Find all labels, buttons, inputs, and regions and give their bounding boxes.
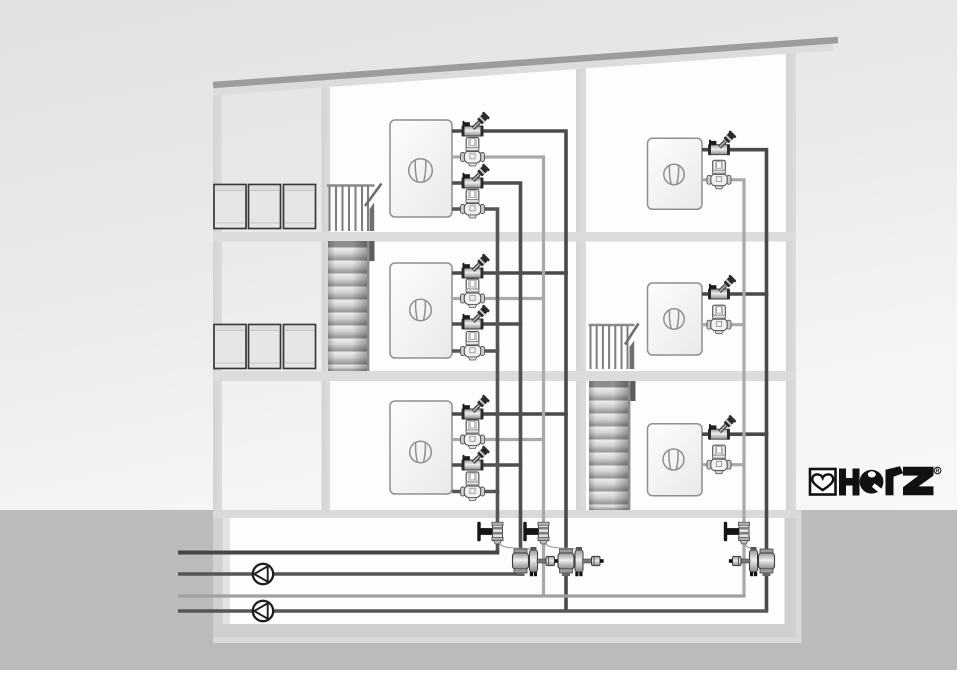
heater H3 emblem [410, 441, 432, 463]
window pane W1 (upper row) [214, 185, 246, 229]
heater H2 emblem [410, 299, 432, 321]
branch pipe floor2 to riser B2 [702, 323, 746, 326]
basement interior left shading [223, 518, 231, 624]
branch pipe floor3 to riser D [452, 490, 499, 494]
radiator valve V11 (H3 circuit 2 supply) [462, 445, 490, 470]
ground / basement band [0, 510, 957, 670]
newel post (left stairwell) [370, 203, 375, 232]
basement interior [223, 518, 785, 624]
window pane W2 (upper row) [249, 185, 281, 229]
branch pipe floor2 to riser D [452, 349, 499, 353]
staircase right edge line (left) [367, 241, 369, 371]
radiator valve V17 (H6 supply) [708, 415, 736, 440]
shut-off valve S1 on riser D [477, 522, 503, 544]
HERZ logo letter E [860, 470, 884, 494]
radiator valve V1 (H1 supply, inclined handwheel) [462, 111, 490, 136]
actuator valve V14 (H4 return) [707, 160, 731, 189]
stair newel block (left staircase top right) [368, 241, 375, 261]
basement main 4 (dark, pump circuit) [178, 609, 768, 613]
pump P1 [253, 564, 273, 584]
basement main 1 (dark, to riser D) [178, 551, 499, 555]
branch pipe floor2 to riser B [452, 297, 545, 300]
differential pressure controller DP1 on riser C [513, 547, 559, 576]
radiator valve V5 (H2 supply) [462, 253, 490, 278]
differential pressure controller DP2 on riser A [558, 547, 604, 576]
facade interior wall [322, 77, 331, 511]
HERZ logo heart [812, 474, 833, 490]
window pane W6 (lower row) [284, 325, 316, 369]
actuator valve V18 (H6 return) [707, 445, 731, 474]
branch pipe floor2 to riser A [452, 271, 568, 275]
actuator valve V8 (H2 circuit 2 return) [461, 332, 485, 361]
branch pipe floor3 to riser B [452, 438, 545, 441]
heater H4 emblem [664, 164, 684, 184]
roof edge (dark band) [213, 40, 838, 85]
actuator valve V10 (H3 return) [461, 420, 485, 449]
riser A2 with floor1 branch (dark, right column) [702, 150, 767, 611]
radiator valve V3 (H1 circuit 2 supply) [462, 163, 490, 188]
actuator valve V12 (H3 circuit 2 return) [461, 472, 485, 501]
registered trademark symbol [934, 467, 941, 474]
actuator valve V6 (H2 return) [461, 279, 485, 308]
radiator valve V15 (H5 supply) [708, 274, 736, 299]
shut-off valve S2 on riser B [523, 522, 549, 544]
left outer wall [213, 84, 222, 511]
svg-text:R: R [936, 469, 940, 475]
stair railing floor 1 (left stairwell) [327, 186, 375, 232]
heater unit H4 (right floor 1) [648, 138, 703, 209]
staircase upper (left stairwell steps) [328, 241, 367, 371]
heater H6 emblem [663, 449, 684, 470]
riser A with floor1 branch (dark supply, left column) [452, 131, 566, 611]
floor slab level 1 [213, 232, 796, 242]
heater unit H5 (right floor 2) [648, 283, 703, 355]
heater unit H3 (left floor 3) [390, 401, 452, 494]
stair newel block (right staircase top right) [629, 381, 636, 401]
middle wall [576, 58, 586, 511]
HERZ logo letter R [886, 470, 894, 496]
riser B2 with floor1 branch (light, right column) [702, 180, 744, 596]
staircase lower (right stairwell steps) [589, 381, 628, 510]
building interior (white) [325, 50, 796, 512]
handrail sloped (right stairwell) [625, 324, 639, 345]
radiator valve V13 (H4 supply) [708, 130, 736, 155]
capillary tube valve B to controller A [544, 541, 578, 549]
riser B with floor1 branch (light return, left column) [452, 157, 544, 596]
window pane W4 (lower row) [214, 325, 246, 369]
staircase right edge line (right) [628, 381, 630, 510]
branch pipe floor3 to riser A [452, 412, 568, 416]
branch pipe floor2 to riser C [452, 322, 522, 326]
actuator valve V2 (H1 return) [461, 138, 485, 167]
branch pipe floor3 to riser C [452, 463, 522, 467]
handrail sloped (left stairwell) [365, 184, 382, 207]
basement outer walls [213, 510, 796, 637]
riser D with floor1 branch (dark, left column) [452, 209, 498, 553]
basement main 2 (dark, pump circuit to riser C) [178, 572, 522, 575]
radiator valve V9 (H3 supply) [462, 394, 490, 419]
roof slab (light underside) [213, 47, 833, 92]
pump P2 [253, 601, 273, 621]
heater unit H6 (right floor 3) [648, 424, 703, 496]
heater H5 emblem [664, 309, 684, 329]
right outer wall [786, 43, 796, 511]
branch pipe floor3 to riser A2 [702, 432, 768, 436]
basement main 3 (light return) [178, 594, 746, 597]
HERZ logo letter H [839, 469, 860, 496]
branch pipe floor3 to riser B2 [702, 463, 746, 466]
floor slab level 2 [213, 371, 796, 381]
capillary tube valve D to controller C [498, 541, 532, 549]
shut-off valve S3 on riser B2 [724, 522, 750, 544]
stair railing floor 2 (right stairwell) [589, 325, 635, 369]
HERZ logo letter Z [903, 467, 934, 496]
actuator valve V16 (H5 return) [707, 305, 731, 334]
heater unit H1 (left floor 1) [390, 120, 452, 217]
branch pipe floor2 to riser A2 [702, 292, 768, 296]
differential pressure controller DP3 on riser A2 (mirrored) [729, 547, 775, 576]
heater H1 emblem [409, 159, 433, 183]
window pane W3 (upper row) [284, 185, 316, 229]
window pane W5 (lower row) [249, 325, 281, 369]
basement ceiling slab [213, 510, 796, 518]
basement outer halo [213, 510, 802, 643]
riser C with floor1 branch (dark, left column) [452, 183, 521, 574]
actuator valve V4 (H1 circuit 2 return) [461, 190, 485, 219]
newel post (right stairwell) [630, 341, 635, 370]
radiator valve V7 (H2 circuit 2 supply) [462, 304, 490, 329]
heater unit H2 (left floor 2) [390, 263, 452, 358]
capillary tube valve B2 to controller A2 [744, 541, 755, 549]
HERZ logo frame [810, 466, 941, 495]
